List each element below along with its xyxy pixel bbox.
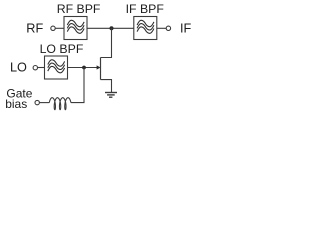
wire LO BPF to gate [68,67,98,69]
filter IF BPF waves [137,20,154,33]
port circle IF [166,26,170,30]
transistor Q1 source [101,80,112,92]
wire LO port to LO BPF [38,67,45,69]
gate arrow [97,65,101,69]
ground [105,93,117,98]
port circle RF [51,26,55,30]
filter RF BPF waves [67,20,84,33]
svg-text:RF: RF [26,21,43,35]
wire IF BPF to IF port [157,27,166,29]
svg-text:IF: IF [180,21,192,35]
svg-text:bias: bias [5,97,27,111]
node gate bias junction [82,66,86,70]
port circle Gate bias [35,100,39,104]
transistor Q1 drain [101,28,112,57]
port circle LO [33,66,37,70]
svg-text:IF BPF: IF BPF [126,2,165,16]
svg-text:LO BPF: LO BPF [40,42,84,56]
wire bias port to inductor [39,102,49,104]
wire RF BPF to IF BPF [87,27,134,29]
wire RF port to RF BPF [55,27,64,29]
filter LO BPF box [45,56,68,79]
svg-text:RF BPF: RF BPF [57,2,101,16]
svg-text:LO: LO [10,60,27,74]
transistor Q1 gate bar [100,58,102,80]
inductor L1 gate bias choke [49,98,71,110]
node drain junction [110,26,114,30]
filter IF BPF box [134,17,157,40]
filter RF BPF box [64,17,87,40]
filter LO BPF waves [48,60,65,73]
wire inductor to LO line [71,68,84,103]
